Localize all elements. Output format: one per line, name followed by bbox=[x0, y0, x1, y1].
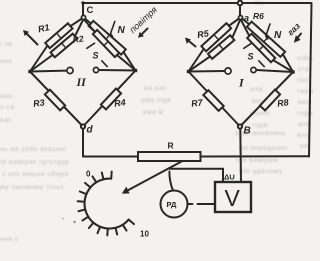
chamber divider (inner left, bridge I) bbox=[219, 44, 224, 49]
svg-text:R5: R5 bbox=[196, 28, 210, 40]
wire: arm a to left corner (outer, through R5) bbox=[189, 18, 241, 72]
sensing element (outer right, two chambers) bbox=[247, 22, 285, 57]
wire: bottom supply bus, right of rheostat bbox=[201, 155, 310, 157]
junction at top of node C stub bbox=[81, 1, 84, 4]
magnet pole marker N (bridge I) bbox=[266, 24, 270, 39]
magnet pole marker N bbox=[111, 22, 115, 37]
wire: arm C to left corner (outer, through R1) bbox=[30, 18, 84, 72]
chamber divider R5 bbox=[214, 35, 219, 40]
left corner node of bridge II bbox=[28, 70, 31, 73]
node d (bottom of bridge II) bbox=[81, 124, 85, 128]
gas outlet arrow (bridge II) bbox=[25, 32, 38, 45]
faint page bleed-through text (decorative) bbox=[0, 41, 12, 48]
resistor R2 bbox=[51, 34, 77, 58]
svg-text:R6: R6 bbox=[253, 11, 264, 21]
magnet pole marker S (lower stroke) bbox=[102, 61, 107, 67]
wire: lower-right arm with R4 bbox=[83, 71, 136, 127]
wire: bottom supply bus, left of rheostat bbox=[83, 156, 138, 158]
svg-text:C: C bbox=[87, 5, 94, 16]
svg-text:S: S bbox=[93, 51, 99, 61]
dial tick marks bbox=[78, 172, 134, 236]
wire: galvanometer lead from left corner bbox=[30, 70, 67, 73]
wire: wiper junction to voltmeter bbox=[169, 169, 223, 182]
svg-text:N: N bbox=[118, 25, 126, 36]
wire: lower-right arm with R8 bbox=[240, 72, 293, 127]
resistor R8 bbox=[260, 90, 280, 111]
wire: arm C to right corner (outer sensing element) bbox=[84, 18, 136, 71]
wire: galvanometer lead to right corner (bridge I) bbox=[256, 70, 293, 72]
wire: arm a to right corner (outer sensing element) bbox=[241, 18, 294, 73]
magnet pole marker S lower stroke (bridge I) bbox=[259, 61, 264, 67]
svg-text:0: 0 bbox=[86, 170, 91, 179]
gas inlet arrow bbox=[297, 34, 302, 40]
right corner node of bridge II bbox=[134, 69, 137, 72]
wire: node d down to bottom bus bbox=[82, 129, 84, 157]
svg-text:РД: РД bbox=[167, 200, 178, 209]
wire: arm C to left corner (inner, through R2) bbox=[30, 19, 84, 72]
svg-text:B: B bbox=[244, 126, 251, 137]
wire: galvanometer lead to right corner bbox=[99, 69, 136, 72]
dial scale arc bbox=[85, 179, 129, 229]
svg-text:R7: R7 bbox=[191, 97, 205, 109]
resistor R3 bbox=[45, 90, 65, 111]
svg-text:V: V bbox=[225, 185, 241, 211]
galvanometer terminal (right) bbox=[93, 67, 98, 72]
node C (apex of bridge II) bbox=[81, 15, 85, 19]
galvanometer terminal left (bridge I) bbox=[225, 68, 231, 74]
node B (bottom of bridge I) bbox=[238, 124, 242, 128]
svg-text:R4: R4 bbox=[114, 97, 127, 109]
wire: galvanometer lead from left corner (bridge I) bbox=[189, 70, 225, 73]
resistor R1 bbox=[45, 23, 72, 48]
junction node on top bus above bridge I bbox=[238, 1, 243, 6]
left corner node of bridge I bbox=[187, 70, 190, 73]
motor RD bbox=[161, 191, 188, 218]
sensing element (inner left) bbox=[208, 35, 234, 59]
resistor R7 bbox=[203, 90, 223, 111]
wire: arm a to left corner (inner) bbox=[189, 19, 241, 72]
sensing element (inner right) bbox=[247, 34, 275, 62]
resistor R5 bbox=[201, 23, 231, 51]
gas outlet arrow (bridge I) bbox=[187, 40, 196, 47]
wire: motor to voltmeter (right segment) bbox=[198, 203, 216, 205]
wire: stub from top bus down to node C bbox=[82, 4, 84, 15]
svg-text:ΔU: ΔU bbox=[224, 173, 235, 182]
voltmeter V box bbox=[215, 182, 251, 212]
node a (apex of bridge I) bbox=[239, 16, 243, 20]
svg-text:I: I bbox=[238, 76, 245, 90]
wire: arm a to right corner (inner sensing element) bbox=[241, 19, 294, 72]
wire: right-side supply bus bbox=[309, 3, 312, 157]
sensing element (outer right, two chambers) bbox=[89, 21, 126, 55]
wire: lower-left arm with R7 bbox=[189, 72, 241, 127]
magnet pole marker S (upper stroke) bbox=[87, 43, 95, 48]
svg-text:R1: R1 bbox=[37, 22, 50, 34]
rheostat R body bbox=[138, 152, 201, 161]
chamber divider (inner right, bridge I) bbox=[259, 46, 263, 50]
svg-text:10: 10 bbox=[140, 230, 149, 239]
right corner node of bridge I bbox=[291, 70, 294, 73]
galvanometer terminal (left) bbox=[67, 67, 73, 73]
svg-text:N: N bbox=[274, 30, 282, 41]
mechanical link: wiper to motor bbox=[169, 172, 172, 191]
wire: node B down to voltmeter bbox=[239, 129, 242, 182]
wire: lower-left arm with R3 bbox=[30, 72, 83, 127]
resistor R4 bbox=[101, 89, 121, 110]
chamber divider (inner right) bbox=[104, 41, 108, 45]
chamber divider bbox=[105, 35, 110, 41]
wire: arm C to right corner (inner sensing element) bbox=[84, 19, 136, 71]
svg-text:a: a bbox=[244, 13, 249, 23]
rheostat wiper arrow to dial bbox=[128, 162, 182, 191]
chamber divider R1 bbox=[57, 33, 62, 38]
galvanometer terminal right (bridge I) bbox=[251, 67, 256, 72]
svg-text:R8: R8 bbox=[277, 97, 290, 109]
svg-text:повітря: повітря bbox=[128, 4, 160, 34]
svg-text:S: S bbox=[248, 52, 254, 62]
wire: top supply bus from node C to top-right corner bbox=[83, 2, 311, 4]
chamber divider R2 bbox=[62, 43, 67, 48]
svg-text:d: d bbox=[87, 125, 94, 136]
wire: motor to voltmeter (left segment) bbox=[188, 203, 193, 205]
svg-text:II: II bbox=[76, 75, 88, 89]
svg-text:R2: R2 bbox=[72, 33, 84, 44]
svg-text:R: R bbox=[168, 141, 174, 151]
magnet pole marker S upper stroke (bridge I) bbox=[244, 43, 252, 48]
air inlet arrow bbox=[140, 29, 148, 36]
wire: stub from top bus to node a bbox=[239, 6, 241, 16]
sensing element (inner right) bbox=[93, 30, 119, 57]
svg-text:R3: R3 bbox=[33, 97, 46, 109]
chamber divider bbox=[264, 36, 269, 42]
